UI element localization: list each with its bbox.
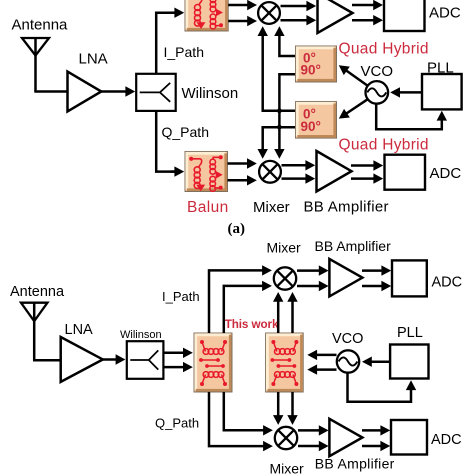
wire antenna to LNA (b): [33, 359, 62, 362]
PLL box (a): [422, 74, 462, 109]
arrow PLL to VCO (a): [398, 91, 422, 94]
svg-text:ADC: ADC: [429, 5, 461, 22]
svg-text:ADC: ADC: [431, 432, 462, 448]
svg-text:LNA: LNA: [79, 51, 108, 68]
wires mixer to BB amp top (b): [297, 269, 321, 272]
this work balun box (b): [194, 333, 232, 392]
svg-text:Mixer: Mixer: [267, 239, 302, 255]
svg-text:VCO: VCO: [361, 63, 394, 80]
wires mixer to BB amp top (a): [281, 5, 309, 8]
mixer top (b): [274, 267, 296, 289]
wire I_Path riser (a): [156, 13, 176, 74]
wire LO A up into top mixer (a): [261, 32, 264, 111]
svg-text:90°: 90°: [301, 119, 321, 134]
wire Q outer (b): [209, 392, 265, 446]
svg-text:This work: This work: [225, 318, 279, 331]
wires VCO to hybrid (b): [315, 354, 336, 357]
wire LO row lower hybrid 90deg + down arrow (a): [263, 127, 296, 152]
power divider Wilinson (a): [136, 74, 176, 111]
PLL box (b): [390, 345, 428, 379]
mixer bottom (a): [259, 161, 281, 183]
mixer top (a): [258, 2, 280, 24]
svg-text:VCO: VCO: [332, 331, 363, 347]
svg-text:Wilinson: Wilinson: [182, 85, 239, 102]
mixer bottom (b): [275, 427, 297, 449]
antenna symbol (b): [21, 303, 48, 322]
balun box bottom (a): [185, 152, 228, 192]
wire LNA to Wilkinson with arrow (a): [101, 90, 128, 93]
ADC box top (b): [392, 260, 427, 296]
svg-text:ADC: ADC: [432, 275, 463, 291]
amplifier LNA (a): [68, 72, 102, 112]
ADC box bottom (b): [391, 420, 427, 455]
wires mixer to BB amp bottom (a): [282, 164, 308, 167]
wire I outer (b): [209, 270, 264, 333]
power divider Wilinson (b): [127, 341, 164, 379]
wires LO up to mixer (b): [277, 298, 280, 333]
BB amplifier top (a): [318, 0, 353, 33]
oscillator VCO (a): [366, 81, 389, 104]
antenna symbol (a): [22, 38, 49, 56]
ADC box bottom (a): [385, 155, 426, 190]
svg-text:Wilinson: Wilinson: [120, 329, 162, 341]
wire Q_Path riser (a): [156, 111, 176, 172]
wires balun to mixer top (a): [228, 4, 249, 7]
wires BB amp to ADC top (a): [352, 4, 375, 7]
arrow VCO to bottom hybrid (a): [345, 100, 367, 115]
svg-text:(a): (a): [228, 221, 246, 237]
svg-text:Mixer: Mixer: [253, 199, 290, 216]
ADC box top (a): [384, 0, 425, 31]
amplifier LNA (b): [61, 337, 103, 382]
arrow VCO to top hybrid (a): [345, 70, 367, 86]
wire LNA to Wilinson with arrow (b): [102, 358, 118, 361]
oscillator VCO (b): [337, 350, 359, 372]
svg-text:Q_Path: Q_Path: [155, 416, 199, 431]
balun box top (a): [185, 0, 228, 31]
wire I inner (b): [224, 286, 264, 333]
wires LO down to mixer (b): [277, 392, 280, 419]
wire VCO feedback to PLL (a): [376, 104, 442, 130]
wire LO row to lower hybrid 0deg (a): [262, 110, 296, 113]
svg-text:PLL: PLL: [397, 325, 423, 341]
wires BB amp to ADC bottom (a): [351, 164, 375, 167]
this work hybrid box (b): [266, 333, 304, 392]
arrow into top balun (a): [170, 11, 176, 14]
svg-text:I_Path: I_Path: [164, 44, 204, 60]
BB amplifier bottom (a): [317, 151, 352, 191]
svg-text:Quad Hybrid: Quad Hybrid: [339, 41, 429, 58]
quad hybrid box bottom (a): [296, 102, 337, 139]
svg-text:BB Amplifier: BB Amplifier: [304, 198, 389, 215]
wires balun to mixer bottom (a): [228, 162, 250, 165]
BB amplifier bottom (b): [329, 419, 362, 456]
svg-text:Balun: Balun: [187, 199, 229, 216]
wires Wilinson to balun (b): [164, 352, 186, 355]
wire LO 90deg down (a): [279, 74, 295, 152]
BB amplifier top (b): [329, 259, 362, 297]
svg-text:Quad Hybrid: Quad Hybrid: [339, 136, 429, 153]
wire Q inner (b): [224, 392, 265, 430]
svg-text:Antenna: Antenna: [10, 284, 65, 300]
junction dots (a): [277, 108, 282, 113]
svg-text:90°: 90°: [301, 63, 321, 78]
svg-text:BB Amplifier: BB Amplifier: [315, 456, 395, 472]
arrow PLL to VCO (b): [370, 360, 390, 363]
wires mixer to BB amp bottom (b): [298, 429, 321, 432]
svg-text:I_Path: I_Path: [162, 289, 200, 304]
svg-text:Antenna: Antenna: [12, 17, 69, 34]
wires BB amp to ADC bottom (b): [362, 429, 382, 432]
arrow into bottom balun (a): [170, 170, 176, 173]
wire VCO feedback to PLL (b): [348, 372, 412, 401]
wire LO B 0deg to top mixer (a): [279, 32, 295, 56]
wires BB amp to ADC top (b): [362, 269, 383, 272]
wire antenna to LNA (a): [34, 90, 68, 93]
svg-text:LNA: LNA: [65, 322, 94, 338]
quad hybrid box top (a): [296, 46, 337, 82]
svg-text:Q_Path: Q_Path: [162, 124, 209, 140]
svg-text:ADC: ADC: [430, 165, 462, 182]
svg-text:Mixer: Mixer: [270, 461, 305, 474]
svg-text:BB Amplifier: BB Amplifier: [315, 238, 392, 254]
